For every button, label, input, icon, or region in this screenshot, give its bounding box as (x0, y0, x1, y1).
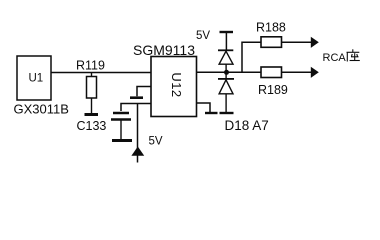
diode D18a triangle (219, 51, 233, 64)
svg-text:R119: R119 (76, 59, 105, 73)
svg-text:5V: 5V (196, 30, 210, 42)
5V rail wire (bottom, to pin of U12) (121, 104, 152, 112)
output arrow 1 (311, 37, 319, 48)
svg-text:D18 A7: D18 A7 (225, 118, 269, 133)
capacitor C133 top plate (113, 112, 129, 115)
svg-text:R188: R188 (256, 21, 286, 35)
resistor R119 top lead (91, 73, 93, 77)
diode D18b triangle (219, 80, 233, 94)
resistor R119 bottom lead (91, 98, 93, 113)
capacitor C133 bottom lead (120, 121, 122, 140)
svg-text:GX3011B: GX3011B (14, 102, 69, 117)
5V rail T-bar (top) (220, 31, 234, 33)
diode D18a anode lead (225, 64, 227, 72)
svg-text:R189: R189 (258, 83, 288, 97)
wire from U12 output to junction (net OUT) (197, 71, 262, 73)
5V supply arrow (bottom) stem (137, 104, 139, 163)
svg-text:U12: U12 (169, 72, 184, 97)
ground bar under R119 (85, 113, 99, 116)
5V rail stem to diode D18a (225, 32, 227, 50)
svg-text:SGM9113: SGM9113 (133, 42, 195, 58)
ground bar under U12 pin (205, 112, 218, 114)
IC U1 box (17, 56, 51, 100)
RCA connector CJK glyph 座 (drawn) (347, 49, 360, 61)
svg-text:RCA: RCA (323, 52, 347, 64)
diode D18b cathode lead (225, 72, 227, 79)
resistor R188 output lead (282, 41, 312, 43)
bypass capacitor plate (130, 96, 143, 99)
resistor R188 body (261, 37, 282, 48)
capacitor C133 bottom plate (111, 118, 131, 121)
svg-text:C133: C133 (77, 119, 107, 133)
5V supply arrow head (131, 147, 144, 156)
diode D18b cathode bar (218, 78, 234, 80)
output arrow 2 (311, 67, 319, 78)
op-amp U12 box (151, 57, 197, 117)
ground bar under C133 (112, 139, 132, 142)
wire from U1 to U12 (net IN) (51, 72, 151, 74)
junction dot at diode clamp node (224, 70, 229, 75)
resistor R189 output lead (282, 71, 312, 73)
U12 lower right pin wire (197, 103, 211, 112)
svg-text:U1: U1 (29, 73, 44, 85)
bypass capacitor at U12 pin: stub wire (137, 87, 152, 97)
diode D18a cathode bar (218, 49, 233, 51)
resistor R119 body (87, 77, 97, 99)
ground bar under diode D18b (220, 112, 234, 114)
diode D18b anode lead (225, 94, 227, 112)
svg-text:5V: 5V (149, 136, 163, 148)
branch wire up to R188 (242, 42, 261, 72)
resistor R189 body (261, 67, 282, 78)
